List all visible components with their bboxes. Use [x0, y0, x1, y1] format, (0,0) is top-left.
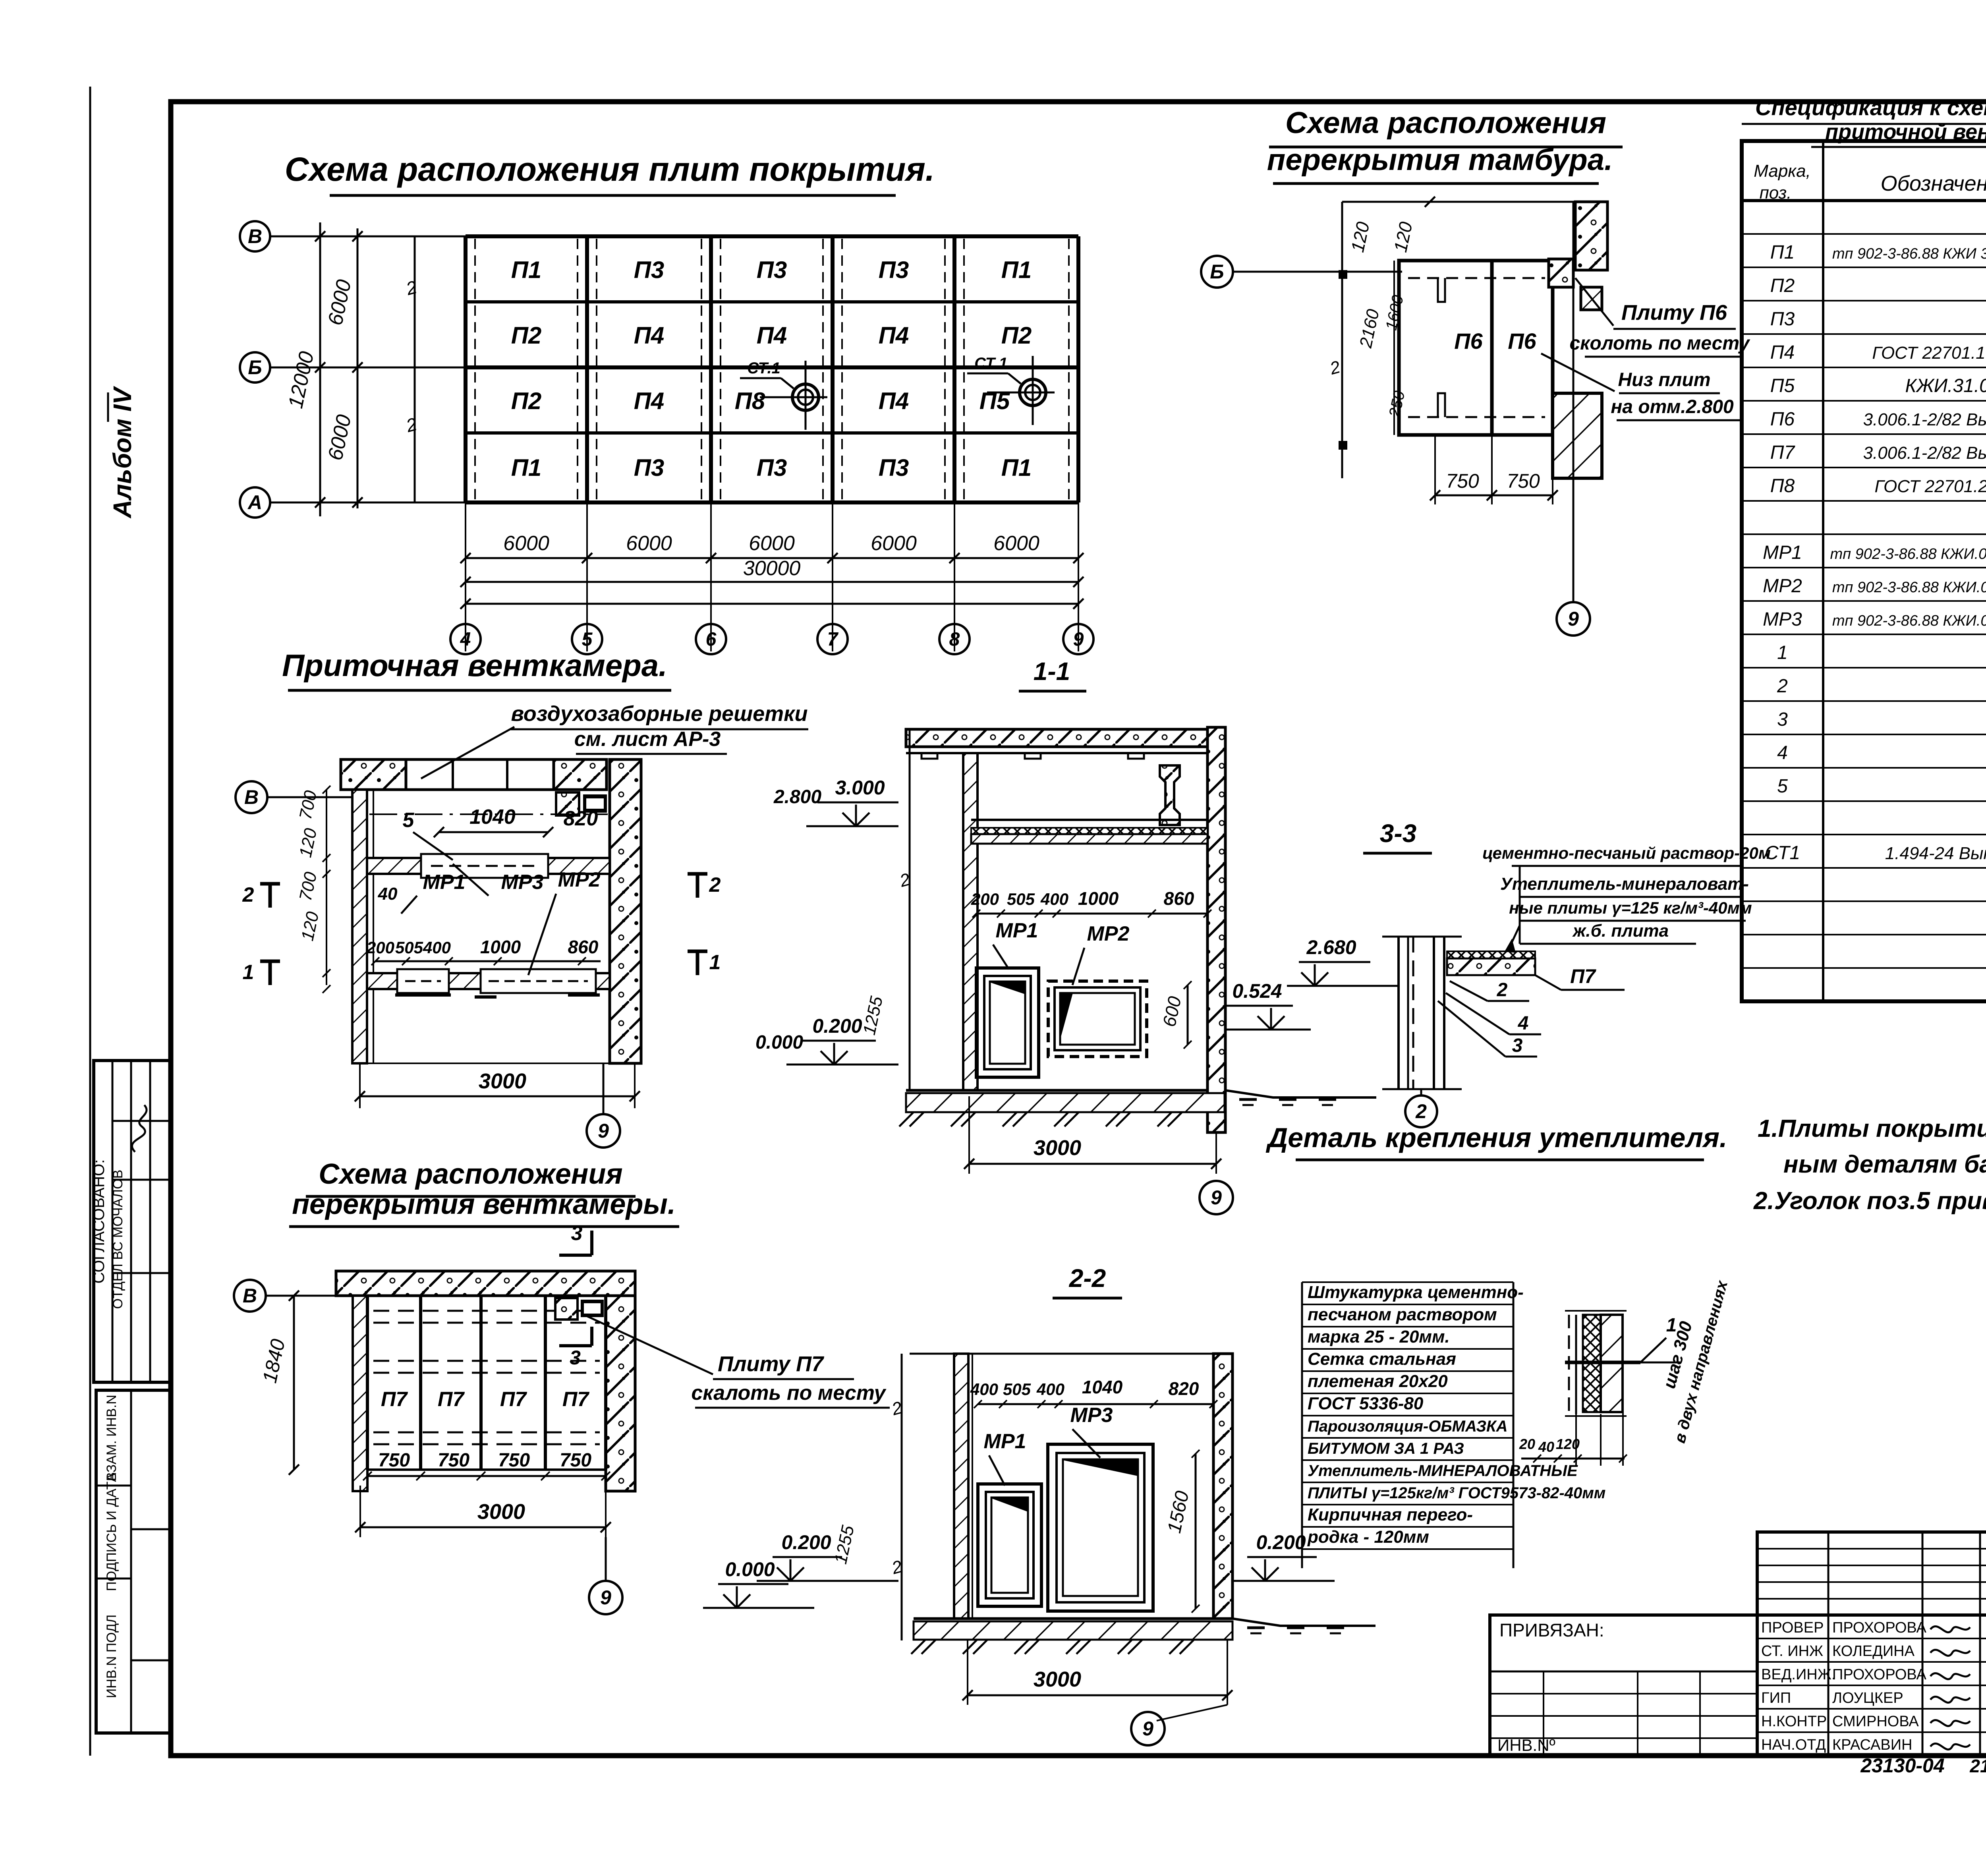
svg-text:9: 9 [600, 1586, 611, 1609]
svg-text:6: 6 [706, 629, 717, 650]
svg-text:4: 4 [1518, 1013, 1529, 1034]
svg-text:МР1: МР1 [996, 919, 1038, 942]
svg-text:П2: П2 [511, 322, 542, 349]
svg-text:860: 860 [1164, 888, 1194, 909]
svg-text:5: 5 [582, 629, 593, 650]
svg-text:3000: 3000 [1034, 1136, 1081, 1160]
svg-text:9: 9 [598, 1120, 609, 1142]
svg-text:5: 5 [1777, 776, 1788, 797]
svg-text:П3: П3 [879, 454, 909, 481]
svg-text:П7: П7 [562, 1388, 589, 1411]
svg-text:ВЕД.ИНЖ.: ВЕД.ИНЖ. [1761, 1666, 1835, 1683]
svg-text:750: 750 [378, 1450, 410, 1471]
svg-text:тп 902-3-86.88 КЖИ.00.02.00.: тп 902-3-86.88 КЖИ.00.02.00.00 [1832, 579, 1986, 596]
svg-text:ж.б. плита: ж.б. плита [1572, 921, 1669, 941]
svg-text:П3: П3 [1770, 309, 1795, 330]
svg-text:ПРИВЯЗАН:: ПРИВЯЗАН: [1499, 1620, 1604, 1640]
svg-text:Сетка стальная: Сетка стальная [1308, 1349, 1456, 1369]
svg-text:тп 902-3-86.88 КЖИ 30.00.00.: тп 902-3-86.88 КЖИ 30.00.00.00 [1832, 245, 1986, 262]
svg-text:Схема расположения плит покрыт: Схема расположения плит покрытия. [285, 151, 935, 188]
svg-text:ИНВ.N ПОДЛ: ИНВ.N ПОДЛ [104, 1615, 119, 1698]
svg-text:П1: П1 [511, 257, 542, 283]
svg-text:0.200: 0.200 [781, 1531, 831, 1553]
svg-text:40: 40 [1538, 1439, 1554, 1455]
svg-text:МР1: МР1 [1763, 542, 1802, 563]
svg-text:820: 820 [1169, 1378, 1199, 1399]
svg-text:1-1: 1-1 [1034, 657, 1070, 686]
svg-text:Штукатурка цементно-: Штукатурка цементно- [1308, 1283, 1524, 1302]
svg-text:505: 505 [1003, 1380, 1031, 1399]
svg-text:МР2: МР2 [558, 868, 601, 891]
svg-text:см. лист АР-3: см. лист АР-3 [574, 728, 721, 751]
svg-text:П7: П7 [381, 1388, 408, 1411]
svg-text:3: 3 [1777, 709, 1788, 730]
svg-text:перекрытия тамбура.: перекрытия тамбура. [1267, 143, 1613, 177]
svg-text:200: 200 [366, 938, 394, 957]
svg-text:Схема расположения: Схема расположения [319, 1158, 622, 1190]
svg-text:П8: П8 [1770, 475, 1795, 497]
svg-text:ЛОУЦКЕР: ЛОУЦКЕР [1832, 1690, 1903, 1706]
svg-text:750: 750 [498, 1450, 530, 1471]
svg-text:750: 750 [560, 1450, 591, 1471]
svg-text:П3: П3 [634, 454, 665, 481]
svg-text:П3: П3 [634, 257, 665, 283]
svg-text:П2: П2 [511, 388, 542, 414]
svg-text:ГОСТ 5336-80: ГОСТ 5336-80 [1308, 1394, 1424, 1413]
svg-text:400: 400 [970, 1380, 998, 1399]
svg-text:П6: П6 [1454, 328, 1483, 354]
svg-text:505: 505 [1007, 890, 1035, 908]
svg-text:2.Уголок поз.5 приварить по пе: 2.Уголок поз.5 приварить по периметру к … [1753, 1187, 1986, 1215]
svg-text:песчаном раствором: песчаном раствором [1308, 1305, 1497, 1324]
svg-text:Пароизоляция-ОБМАЗКА: Пароизоляция-ОБМАЗКА [1308, 1418, 1508, 1435]
svg-text:6000: 6000 [749, 532, 795, 555]
svg-text:Б: Б [1210, 261, 1224, 283]
svg-text:П4: П4 [757, 322, 787, 349]
svg-text:ПОДПИСЬ И ДАТА: ПОДПИСЬ И ДАТА [104, 1473, 119, 1591]
svg-text:Деталь крепления утеплителя.: Деталь крепления утеплителя. [1266, 1122, 1727, 1153]
svg-text:П4: П4 [634, 388, 665, 414]
svg-text:2: 2 [1497, 980, 1508, 1001]
svg-text:1.494-24 Вып.1: 1.494-24 Вып.1 [1885, 844, 1986, 863]
svg-text:родка - 120мм: родка - 120мм [1307, 1527, 1429, 1547]
svg-text:ИНВ.Nº: ИНВ.Nº [1497, 1736, 1555, 1754]
svg-text:скалоть по месту: скалоть по месту [691, 1381, 887, 1405]
svg-text:В: В [244, 786, 259, 808]
svg-text:Марка,: Марка, [1754, 161, 1811, 181]
svg-text:ГОСТ 22701.1 - 77: ГОСТ 22701.1 - 77 [1872, 343, 1986, 363]
svg-text:2: 2 [709, 873, 721, 896]
svg-text:П6: П6 [1770, 409, 1795, 430]
svg-text:0.000: 0.000 [725, 1558, 775, 1580]
svg-text:на отм.2.800: на отм.2.800 [1611, 396, 1734, 417]
svg-text:ПРОХОРОВА: ПРОХОРОВА [1832, 1619, 1926, 1636]
svg-text:2: 2 [1415, 1100, 1427, 1123]
svg-text:МР1: МР1 [423, 871, 466, 894]
svg-text:1040: 1040 [1082, 1377, 1123, 1397]
svg-text:Н.КОНТР: Н.КОНТР [1761, 1713, 1827, 1730]
svg-text:3000: 3000 [1034, 1667, 1081, 1691]
svg-text:СМИРНОВА: СМИРНОВА [1832, 1713, 1919, 1730]
svg-text:0.524: 0.524 [1232, 980, 1282, 1002]
svg-text:400: 400 [1040, 890, 1068, 908]
svg-text:0.200: 0.200 [812, 1015, 862, 1037]
svg-text:П2: П2 [1770, 275, 1795, 296]
svg-text:4: 4 [1777, 742, 1788, 763]
svg-text:2.800: 2.800 [773, 786, 821, 808]
svg-text:1: 1 [243, 961, 254, 984]
svg-text:КРАСАВИН: КРАСАВИН [1832, 1737, 1913, 1753]
svg-text:3.006.1-2/82 Вып.1,2: 3.006.1-2/82 Вып.1,2 [1863, 410, 1986, 429]
svg-text:марка 25 - 20мм.: марка 25 - 20мм. [1308, 1327, 1450, 1347]
svg-text:400: 400 [423, 938, 451, 957]
svg-text:МР2: МР2 [1087, 922, 1130, 945]
svg-text:П4: П4 [879, 322, 909, 349]
svg-text:перекрытия венткамеры.: перекрытия венткамеры. [292, 1188, 676, 1220]
svg-text:П8: П8 [735, 388, 765, 414]
svg-text:9: 9 [1211, 1186, 1222, 1209]
svg-text:ОТДЕЛ ВС МОЧАЛОВ: ОТДЕЛ ВС МОЧАЛОВ [110, 1170, 126, 1309]
svg-text:тп 902-3-86.88 КЖИ.00.01.00.: тп 902-3-86.88 КЖИ.00.01.00.00. [1830, 546, 1986, 562]
svg-text:В: В [243, 1285, 257, 1307]
svg-text:23130-04: 23130-04 [1860, 1754, 1944, 1777]
svg-text:750: 750 [438, 1450, 469, 1471]
svg-text:ПРОВЕР: ПРОВЕР [1761, 1619, 1824, 1636]
svg-text:тп 902-3-86.88 КЖИ.00.03.00.: тп 902-3-86.88 КЖИ.00.03.00.00 [1832, 612, 1986, 629]
svg-text:П4: П4 [879, 388, 909, 414]
svg-text:2: 2 [1777, 676, 1788, 697]
svg-text:П1: П1 [1770, 242, 1795, 263]
svg-text:400: 400 [1036, 1380, 1064, 1399]
svg-text:П3: П3 [879, 257, 909, 283]
svg-text:сколоть по месту: сколоть по месту [1569, 333, 1750, 354]
svg-text:П7: П7 [438, 1388, 465, 1411]
svg-text:750: 750 [1507, 470, 1540, 492]
svg-text:П6: П6 [1508, 328, 1536, 354]
svg-text:цементно-песчаный раствор-20м: цементно-песчаный раствор-20м [1482, 844, 1771, 862]
svg-text:КОЛЕДИНА: КОЛЕДИНА [1832, 1643, 1915, 1660]
svg-text:820: 820 [564, 807, 598, 830]
svg-text:200: 200 [971, 890, 999, 908]
svg-text:П2: П2 [1001, 322, 1032, 349]
svg-text:П3: П3 [757, 257, 787, 283]
svg-text:В: В [248, 225, 262, 247]
svg-text:ПРОХОРОВА: ПРОХОРОВА [1832, 1666, 1926, 1683]
svg-text:1: 1 [709, 951, 721, 974]
svg-text:СТ.1: СТ.1 [747, 359, 780, 377]
svg-text:Обозначение: Обозначение [1881, 172, 1986, 195]
svg-text:Утеплитель-минераловат-: Утеплитель-минераловат- [1500, 874, 1749, 894]
svg-text:Утеплитель-МИНЕРАЛОВАТНЫЕ: Утеплитель-МИНЕРАЛОВАТНЫЕ [1308, 1462, 1578, 1480]
svg-text:ГОСТ 22701.2 -77: ГОСТ 22701.2 -77 [1875, 477, 1986, 496]
svg-text:3-3: 3-3 [1380, 819, 1417, 848]
svg-text:3: 3 [571, 1222, 583, 1245]
svg-text:П7: П7 [500, 1388, 527, 1411]
svg-text:Плиту П6: Плиту П6 [1621, 301, 1727, 325]
svg-text:1: 1 [1666, 1315, 1677, 1336]
svg-text:Приточная венткамера.: Приточная венткамера. [282, 648, 667, 683]
svg-text:3000: 3000 [477, 1500, 525, 1524]
svg-text:НАЧ.ОТД: НАЧ.ОТД [1761, 1737, 1826, 1753]
svg-text:2-2: 2-2 [1069, 1264, 1106, 1293]
svg-text:7: 7 [827, 629, 839, 650]
svg-text:ные плиты γ=125 кг/м³-40мм: ные плиты γ=125 кг/м³-40мм [1509, 898, 1752, 917]
svg-text:Спецификация к схеме расположе: Спецификация к схеме расположения плит п… [1755, 95, 1986, 120]
svg-text:750: 750 [1446, 470, 1479, 492]
svg-text:ным деталям балок покрытия.: ным деталям балок покрытия. [1783, 1151, 1986, 1178]
svg-text:505: 505 [395, 938, 423, 957]
svg-text:П1: П1 [1001, 454, 1032, 481]
svg-text:30000: 30000 [743, 557, 801, 580]
svg-text:КЖИ.31.00.00.00: КЖИ.31.00.00.00 [1905, 375, 1986, 396]
svg-text:9: 9 [1568, 608, 1579, 630]
svg-text:ВЗАМ. ИНВ.N: ВЗАМ. ИНВ.N [104, 1395, 119, 1481]
svg-text:3: 3 [570, 1347, 581, 1369]
svg-text:2: 2 [242, 883, 254, 906]
svg-text:СТ.1: СТ.1 [974, 355, 1008, 372]
svg-text:21: 21 [1969, 1756, 1986, 1776]
svg-text:3.000: 3.000 [835, 777, 885, 799]
svg-text:1.Плиты покрытия марки П1÷П5,: 1.Плиты покрытия марки П1÷П5,П8 приварит… [1758, 1115, 1986, 1142]
svg-text:П5: П5 [1770, 375, 1795, 396]
svg-text:П7: П7 [1770, 442, 1796, 463]
svg-text:6000: 6000 [503, 532, 549, 555]
svg-text:9: 9 [1142, 1718, 1153, 1740]
svg-text:СОГЛАСОВАНО:: СОГЛАСОВАНО: [90, 1159, 108, 1284]
svg-text:П4: П4 [1770, 342, 1795, 363]
svg-text:Схема расположения: Схема расположения [1285, 106, 1606, 140]
svg-text:6000: 6000 [626, 532, 672, 555]
svg-text:9: 9 [1073, 629, 1084, 650]
svg-text:0.000: 0.000 [755, 1032, 803, 1053]
svg-text:0.200: 0.200 [1256, 1531, 1306, 1553]
svg-text:20: 20 [1519, 1436, 1535, 1452]
svg-text:860: 860 [568, 937, 599, 957]
svg-text:6000: 6000 [871, 532, 917, 555]
svg-text:3000: 3000 [479, 1069, 526, 1093]
svg-text:СТ. ИНЖ: СТ. ИНЖ [1761, 1643, 1823, 1660]
svg-text:МР3: МР3 [501, 871, 544, 894]
svg-text:П7: П7 [1570, 965, 1596, 987]
svg-text:3: 3 [1512, 1035, 1523, 1056]
svg-text:1000: 1000 [1078, 888, 1119, 909]
svg-text:2.680: 2.680 [1306, 936, 1356, 958]
svg-text:1: 1 [1777, 642, 1788, 663]
svg-text:воздухозаборные решетки: воздухозаборные решетки [511, 702, 808, 726]
svg-text:40: 40 [378, 884, 398, 904]
svg-text:5: 5 [403, 809, 415, 832]
svg-text:МР3: МР3 [1763, 609, 1802, 630]
svg-text:1000: 1000 [480, 937, 521, 957]
svg-text:4: 4 [460, 629, 471, 650]
svg-text:ПЛИТЫ γ=125кг/м³ ГОСТ9573-82-4: ПЛИТЫ γ=125кг/м³ ГОСТ9573-82-40мм [1308, 1484, 1605, 1502]
svg-text:П1: П1 [511, 454, 542, 481]
svg-text:ГИП: ГИП [1761, 1690, 1791, 1706]
svg-text:плетеная 20х20: плетеная 20х20 [1308, 1372, 1448, 1391]
svg-text:Кирпичная перего-: Кирпичная перего- [1308, 1505, 1473, 1524]
svg-text:Плиту П7: Плиту П7 [718, 1352, 825, 1376]
svg-text:Низ плит: Низ плит [1618, 369, 1711, 390]
svg-text:МР3: МР3 [1070, 1404, 1113, 1427]
svg-text:П1: П1 [1001, 257, 1032, 283]
svg-text:МР1: МР1 [984, 1430, 1026, 1453]
svg-text:3.006.1-2/82 Вып.1,2: 3.006.1-2/82 Вып.1,2 [1863, 443, 1986, 463]
svg-text:Альбом IV: Альбом IV [108, 386, 137, 519]
svg-text:Б: Б [248, 356, 262, 379]
svg-text:поз.: поз. [1760, 183, 1792, 203]
svg-text:П3: П3 [757, 454, 787, 481]
svg-text:6000: 6000 [993, 532, 1039, 555]
svg-text:БИТУМОМ ЗА 1 РАЗ: БИТУМОМ ЗА 1 РАЗ [1308, 1440, 1464, 1457]
svg-text:А: А [247, 491, 262, 514]
svg-text:1040: 1040 [469, 806, 516, 829]
svg-text:МР2: МР2 [1763, 576, 1802, 597]
svg-text:8: 8 [949, 629, 960, 650]
svg-text:П4: П4 [634, 322, 665, 349]
